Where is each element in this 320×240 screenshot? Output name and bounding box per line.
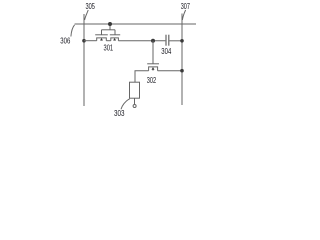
svg-text:301: 301 [104, 43, 114, 53]
wire: right vertical line [181, 14, 183, 106]
transistor 301 gate stub right [114, 30, 116, 35]
transistor 302 arrow [152, 69, 154, 70]
wire: lower horizontal wire from left vertical line to transistor 301 [84, 40, 97, 42]
node: junction of left vertical line and lower wire [82, 39, 86, 43]
capacitor 304 right plate [168, 35, 170, 46]
wire: gate line from node down to transistor 302 [152, 41, 154, 64]
svg-text:306: 306 [60, 35, 70, 45]
transistor 301 gate bar left [95, 34, 108, 36]
leader line for label 305 [85, 10, 89, 20]
svg-text:303: 303 [114, 108, 125, 118]
leader line for label 307 [182, 10, 185, 20]
wire: gate tap of 301 up to top line [109, 24, 111, 30]
wire: top horizontal scan line 305/306/307 [75, 23, 196, 25]
leader line for label 306 [71, 25, 75, 37]
transistor 302 gate bar [147, 63, 159, 65]
capacitor 304 left plate [165, 35, 167, 46]
svg-text:305: 305 [85, 1, 95, 11]
transistor 301 arrow right [114, 40, 116, 41]
node: junction on lower wire feeding gate of 302 [151, 39, 155, 43]
node: junction of capacitor wire on right vertical line [180, 39, 184, 43]
transistor 301 arrow left [101, 40, 103, 41]
transistor 301 gate connect bar [102, 29, 116, 31]
svg-text:307: 307 [181, 1, 190, 11]
transistor 301 gate stub left [101, 30, 103, 35]
element 303 rectangle (EL element) [130, 82, 140, 98]
transistor 302 channel staple [149, 67, 158, 71]
node: junction of 302 right terminal on right vertical line [180, 69, 184, 73]
wire: left vertical signal line [83, 14, 85, 106]
leader line for label 303 [121, 99, 130, 109]
wire: stub from 303 down to terminal [134, 98, 136, 104]
wire: lower wire from 301 to junction node [118, 40, 165, 42]
transistor 301 (dual-gate TFT) channel staple left [97, 38, 107, 41]
transistor 301 channel staple right [111, 38, 119, 41]
wire: 302 left terminal to element 303 branch [135, 71, 149, 82]
terminal circle below 303 [133, 105, 136, 108]
wire: 302 right terminal to right vertical line [158, 70, 182, 72]
svg-text:302: 302 [147, 75, 157, 85]
wire: segment between the two channels of 301 [106, 40, 111, 42]
node: junction of 301 gate tap on top line [108, 22, 112, 26]
wire: from capacitor 304 right plate to right vertical line [169, 40, 182, 42]
svg-text:304: 304 [161, 46, 171, 56]
transistor 301 gate bar right [110, 34, 120, 36]
